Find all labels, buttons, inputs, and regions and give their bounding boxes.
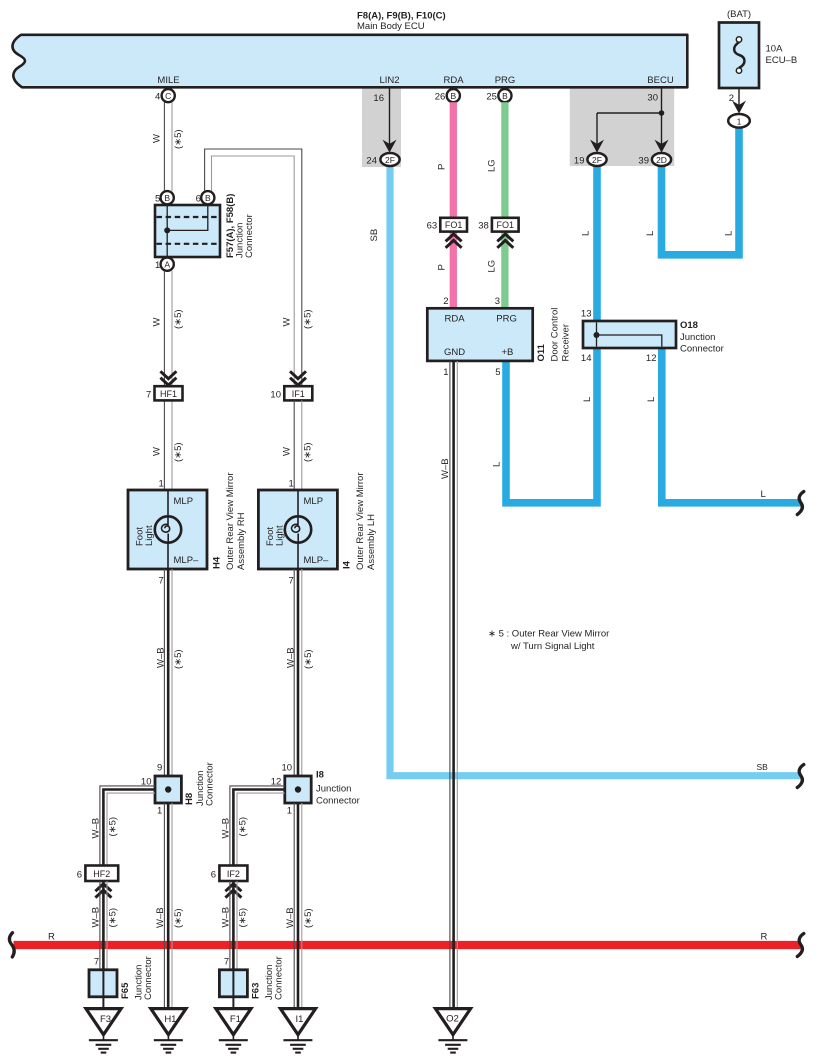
svg-text:24: 24: [366, 156, 377, 167]
svg-text:H1: H1: [164, 1014, 176, 1025]
pin 1 connector A of F57: [155, 258, 174, 271]
svg-text:Light: Light: [274, 525, 285, 546]
svg-text:SB: SB: [369, 229, 380, 242]
fuse 10A ECU-B (BAT): [719, 9, 797, 88]
svg-text:6: 6: [196, 194, 201, 205]
svg-text:Assembly LH: Assembly LH: [366, 514, 377, 570]
connector IF2 pin 6: [211, 866, 248, 898]
svg-text:L: L: [761, 489, 766, 500]
ground H1: [151, 1009, 186, 1053]
svg-text:R: R: [761, 932, 768, 943]
svg-text:W–B: W–B: [286, 647, 297, 668]
svg-text:38: 38: [478, 221, 489, 232]
svg-text:LIN2: LIN2: [379, 75, 399, 86]
junction connector H8: [155, 776, 181, 803]
svg-text:Connector: Connector: [273, 956, 284, 1000]
svg-text:P: P: [437, 264, 448, 270]
connector IF1 pin 10: [270, 371, 312, 400]
pin 6 connector B of F57: [196, 191, 215, 204]
svg-text:Receiver: Receiver: [561, 324, 572, 362]
svg-text:1: 1: [287, 806, 292, 817]
svg-text:1: 1: [157, 806, 162, 817]
svg-text:P: P: [437, 164, 448, 170]
svg-text:L: L: [645, 231, 656, 236]
ground O2: [435, 1009, 470, 1053]
svg-text:(∗5): (∗5): [238, 908, 249, 928]
svg-text:(∗5): (∗5): [173, 908, 184, 928]
svg-text:IF2: IF2: [227, 869, 240, 879]
svg-text:H8: H8: [184, 793, 195, 805]
svg-text:SB: SB: [757, 762, 769, 772]
svg-text:(∗5): (∗5): [108, 908, 119, 928]
svg-text:2F: 2F: [385, 155, 395, 165]
svg-text:63: 63: [427, 221, 438, 232]
label F57(A),F58(B) Junction Connector: [225, 194, 255, 258]
wire break squiggle right end of L: [797, 492, 804, 515]
svg-text:F1: F1: [230, 1014, 241, 1025]
svg-text:RDA: RDA: [443, 75, 464, 86]
svg-text:C: C: [165, 91, 171, 101]
node 1 (fuse output): [728, 114, 750, 128]
svg-text:Connector: Connector: [316, 796, 360, 807]
node 39 2D (BECU): [638, 153, 671, 167]
wire break squiggle left end of R: [9, 933, 14, 957]
svg-text:B: B: [205, 193, 211, 203]
svg-text:FO1: FO1: [445, 220, 463, 230]
svg-text:2F: 2F: [592, 155, 602, 165]
svg-text:W: W: [282, 447, 293, 456]
svg-text:MLP–: MLP–: [304, 555, 330, 566]
connector FO1 pin 63: [427, 218, 467, 248]
mirror assembly H4 (foot light): [128, 479, 207, 587]
svg-text:A: A: [164, 260, 170, 270]
mirror assembly I4 (foot light): [258, 479, 337, 587]
svg-text:12: 12: [646, 353, 657, 364]
svg-text:I4: I4: [342, 560, 353, 569]
svg-text:GND: GND: [444, 347, 465, 358]
wire W-B from H4 pin 7 to H8: [164, 569, 172, 776]
svg-text:L: L: [581, 231, 592, 236]
svg-text:(∗5): (∗5): [173, 309, 184, 329]
svg-text:(∗5): (∗5): [173, 129, 184, 149]
svg-text:(∗5): (∗5): [303, 649, 314, 669]
wire W-B from I4 pin 7 to I8: [294, 569, 302, 776]
svg-text:25: 25: [486, 92, 497, 103]
wire W from IF1 to mirror I4: [294, 400, 302, 490]
svg-text:W–B: W–B: [220, 907, 231, 928]
junction connector F63: [219, 970, 247, 1009]
svg-text:(∗5): (∗5): [173, 442, 184, 462]
connector HF1 pin 7: [146, 371, 182, 400]
node 24 2F (LIN2): [366, 153, 399, 167]
svg-text:30: 30: [647, 93, 658, 104]
pin 26 connector B of RDA: [435, 89, 460, 103]
label O11 Door Control Receiver: [536, 308, 572, 362]
wire L from fuse node 1 to node 2D (blue): [662, 127, 740, 255]
wire bend from F57 pin 6B to column 2: [205, 149, 302, 386]
svg-text:F65: F65: [120, 982, 131, 999]
svg-text:MLP–: MLP–: [174, 555, 200, 566]
svg-text:LG: LG: [487, 260, 498, 273]
svg-text:RDA: RDA: [445, 314, 466, 325]
svg-text:Connector: Connector: [680, 344, 724, 355]
ground I1: [280, 1009, 315, 1053]
svg-text:O11: O11: [536, 343, 547, 361]
pin 25 connector B of PRG: [486, 89, 511, 103]
label I8 Junction Connector: [316, 770, 360, 807]
shaded region LIN2: [362, 88, 401, 168]
svg-text:4: 4: [155, 92, 160, 103]
node 19 2F (BECU): [574, 153, 607, 167]
svg-text:Junction: Junction: [680, 332, 715, 343]
junction connector I8: [285, 776, 311, 803]
note *5: [488, 629, 609, 653]
junction connector O18: [583, 321, 676, 348]
svg-text:I8: I8: [316, 770, 324, 781]
svg-text:FO1: FO1: [497, 220, 515, 230]
svg-text:+B: +B: [502, 347, 514, 358]
wire W-B branch from I8 pin 12 to IF2: [230, 786, 285, 866]
wire BECU drop and branch: [590, 88, 669, 153]
wire R power rail (red): [14, 941, 801, 949]
label F65 Junction Connector: [120, 956, 154, 1000]
wire L from node 2F through O18 pins 13-14 down to +B of O11: [506, 166, 597, 503]
svg-text:HF2: HF2: [93, 869, 110, 879]
label I4 Outer Rear View Mirror Assembly LH: [342, 473, 378, 571]
svg-text:(BAT): (BAT): [727, 9, 751, 20]
svg-text:MILE: MILE: [157, 75, 179, 86]
svg-text:39: 39: [638, 156, 649, 167]
svg-text:Light: Light: [144, 525, 155, 546]
label H8 Junction Connector: [184, 762, 216, 806]
svg-text:1: 1: [443, 367, 448, 378]
wire fuse drop: [732, 88, 746, 114]
shaded region BECU: [570, 88, 674, 167]
label H4 Outer Rear View Mirror Assembly RH: [212, 473, 248, 571]
svg-text:W: W: [152, 318, 163, 327]
label Main Body ECU title: [357, 11, 446, 33]
svg-text:W–B: W–B: [285, 907, 296, 928]
connector FO1 pin 38: [478, 218, 518, 248]
svg-text:3: 3: [495, 296, 500, 307]
ground F3: [86, 1009, 121, 1053]
svg-text:7: 7: [159, 576, 164, 587]
wire P (pink) RDA to O11 pin 2: [450, 102, 457, 308]
svg-text:10: 10: [282, 763, 293, 774]
connector HF2 pin 6: [77, 866, 118, 898]
svg-text:10A: 10A: [766, 44, 784, 55]
svg-text:BECU: BECU: [647, 75, 674, 86]
svg-text:PRG: PRG: [496, 314, 517, 325]
svg-text:1: 1: [737, 116, 742, 126]
svg-text:O18: O18: [680, 320, 698, 331]
pin 4 connector C of MILE: [155, 89, 175, 103]
svg-text:Connector: Connector: [143, 956, 154, 1000]
wire LIN2 drop: [383, 88, 397, 153]
wire L from O18 pin 12 to right edge: [662, 348, 802, 503]
junction connector F57(A),F58(B): [155, 205, 220, 257]
wire W-B from O11 GND to ground O2: [450, 361, 457, 1009]
wire break squiggle right end of SB: [797, 765, 804, 788]
svg-text:Assembly RH: Assembly RH: [236, 512, 247, 570]
svg-text:W–B: W–B: [90, 907, 101, 928]
svg-text:O2: O2: [446, 1014, 459, 1025]
svg-text:W: W: [152, 447, 163, 456]
svg-text:PRG: PRG: [495, 75, 516, 86]
wire W-B from H8 pin 1 to ground H1: [164, 803, 172, 1009]
svg-text:w/ Turn Signal Light: w/ Turn Signal Light: [510, 641, 595, 652]
svg-text:(∗5): (∗5): [108, 817, 119, 837]
wire SB from node 2F LIN2 to right edge: [390, 166, 802, 776]
svg-text:L: L: [646, 397, 657, 402]
svg-text:19: 19: [574, 156, 585, 167]
wire W-B from I8 pin 1 to ground I1: [294, 803, 302, 1009]
svg-text:(∗5): (∗5): [303, 908, 314, 928]
svg-text:Connector: Connector: [205, 762, 216, 806]
svg-text:13: 13: [581, 309, 592, 320]
svg-text:9: 9: [157, 763, 162, 774]
svg-text:6: 6: [77, 870, 82, 881]
svg-text:W–B: W–B: [156, 647, 167, 668]
svg-text:(∗5): (∗5): [238, 817, 249, 837]
label O18 Junction Connector: [680, 320, 724, 355]
svg-text:7: 7: [224, 957, 229, 968]
svg-text:(∗5): (∗5): [303, 442, 314, 462]
pin 5 connector B of F57: [155, 191, 174, 204]
svg-text:1: 1: [289, 479, 294, 490]
wire break squiggle right end of R: [797, 934, 804, 957]
svg-text:5: 5: [495, 367, 500, 378]
svg-text:W–B: W–B: [90, 818, 101, 839]
svg-text:W: W: [282, 318, 293, 327]
wire W from MILE pin C to F57 pin 5B: [164, 102, 172, 191]
svg-text:W–B: W–B: [155, 907, 166, 928]
svg-text:Door Control: Door Control: [550, 308, 561, 362]
svg-text:1: 1: [155, 260, 160, 271]
svg-text:L: L: [724, 231, 735, 236]
svg-text:16: 16: [373, 93, 384, 104]
svg-text:ECU–B: ECU–B: [766, 55, 798, 66]
ECU main body connector F8(A),F9(B),F10(C): [12, 35, 687, 88]
label F63 Junction Connector: [250, 956, 284, 1000]
svg-text:10: 10: [270, 390, 281, 401]
svg-text:MLP: MLP: [174, 496, 194, 507]
svg-text:R: R: [48, 932, 55, 943]
svg-text:∗ 5 : Outer Rear View Mirror: ∗ 5 : Outer Rear View Mirror: [488, 629, 609, 640]
svg-text:5: 5: [155, 194, 160, 205]
svg-text:Junction: Junction: [316, 784, 351, 795]
svg-text:LG: LG: [487, 159, 498, 172]
svg-text:7: 7: [289, 576, 294, 587]
svg-text:F63: F63: [250, 983, 261, 999]
svg-text:F8(A), F9(B), F10(C): F8(A), F9(B), F10(C): [357, 11, 446, 22]
svg-text:B: B: [502, 91, 508, 101]
svg-text:W: W: [152, 134, 163, 143]
svg-text:(∗5): (∗5): [303, 309, 314, 329]
svg-text:26: 26: [435, 92, 446, 103]
svg-text:IF1: IF1: [292, 389, 305, 399]
svg-text:6: 6: [211, 870, 216, 881]
svg-text:L: L: [492, 462, 503, 467]
svg-text:Connector: Connector: [244, 214, 255, 258]
svg-text:F3: F3: [100, 1014, 111, 1025]
svg-text:I1: I1: [296, 1014, 304, 1025]
svg-text:2D: 2D: [656, 155, 667, 165]
svg-text:B: B: [164, 193, 170, 203]
wire W-B branch from H8 pin 10 to HF2: [100, 786, 155, 866]
svg-text:W–B: W–B: [440, 458, 451, 479]
svg-text:2: 2: [443, 296, 448, 307]
svg-text:B: B: [450, 91, 456, 101]
ground F1: [216, 1009, 251, 1053]
svg-text:1: 1: [159, 479, 164, 490]
svg-text:7: 7: [94, 957, 99, 968]
svg-text:7: 7: [146, 390, 151, 401]
wire LG (green) PRG to O11 pin 3: [501, 102, 508, 308]
svg-text:Outer Rear View Mirror: Outer Rear View Mirror: [225, 473, 236, 571]
svg-text:L: L: [582, 397, 593, 402]
svg-text:Outer Rear View Mirror: Outer Rear View Mirror: [355, 473, 366, 571]
svg-text:HF1: HF1: [160, 389, 177, 399]
svg-text:14: 14: [581, 353, 592, 364]
wire W-B from HF2 to F65: [100, 881, 107, 970]
svg-text:W–B: W–B: [220, 818, 231, 839]
svg-text:Main Body ECU: Main Body ECU: [357, 21, 425, 32]
door control receiver O11: [427, 308, 532, 361]
svg-text:H4: H4: [212, 556, 223, 569]
junction connector F65: [89, 970, 117, 1009]
wire W-B from IF2 to F63: [230, 881, 237, 970]
svg-text:MLP: MLP: [304, 496, 324, 507]
wire W from F57 pin 1A to mirror H4: [164, 271, 172, 490]
svg-text:(∗5): (∗5): [173, 649, 184, 669]
